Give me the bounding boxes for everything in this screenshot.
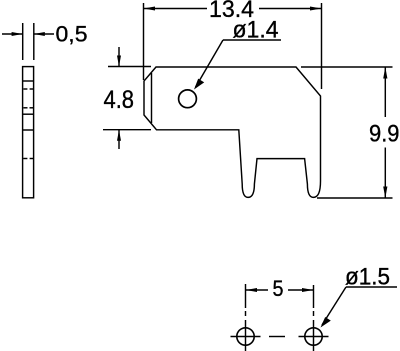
svg-text:ø1.5: ø1.5: [345, 264, 390, 291]
svg-text:4.8: 4.8: [104, 86, 135, 114]
svg-text:9.9: 9.9: [369, 121, 400, 148]
svg-text:0,5: 0,5: [56, 22, 88, 47]
svg-text:5: 5: [273, 276, 284, 301]
svg-text:ø1.4: ø1.4: [233, 17, 279, 44]
